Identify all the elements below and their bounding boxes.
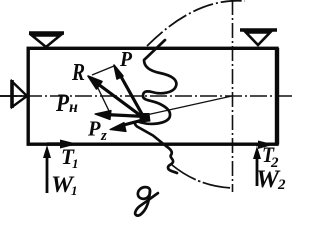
svg-text:1: 1 <box>71 183 78 198</box>
vertical center line (cutter axis) <box>232 0 234 192</box>
top-right support bar <box>240 28 277 32</box>
svg-text:R: R <box>71 60 85 86</box>
left support triangle <box>12 82 27 108</box>
force P shaft <box>119 73 145 120</box>
force P arrowhead <box>114 65 123 79</box>
top-right support triangle <box>246 33 270 46</box>
top-left support bar <box>29 31 64 35</box>
friction force T2 arrow on bottom edge <box>256 143 262 146</box>
parallelogram thin line R-tip to Pn-tip <box>95 82 110 113</box>
force Pn arrowhead <box>95 111 111 120</box>
force R shaft <box>98 84 145 119</box>
force R arrowhead <box>88 76 102 89</box>
svg-text:2: 2 <box>277 177 286 193</box>
horizontal center line (workpiece axis) <box>0 95 293 97</box>
svg-text:z: z <box>100 128 107 144</box>
workpiece rectangle <box>28 48 277 144</box>
clamp force W2 arrow <box>256 151 259 186</box>
cutter circle top arc <box>147 1 245 46</box>
force Pz arrowhead <box>110 123 126 132</box>
svg-text:1: 1 <box>72 156 79 171</box>
left support center line <box>0 95 28 97</box>
svg-text:P: P <box>87 117 101 141</box>
cutter circle bottom arc <box>172 165 233 188</box>
clamp force W1 arrow <box>46 150 49 193</box>
friction force T1 arrow on bottom edge <box>47 142 62 145</box>
parallelogram thin line R-tip to P-tip <box>92 66 114 75</box>
right edge emphasis <box>275 48 279 145</box>
force Pz shaft <box>120 120 145 127</box>
svg-text:н: н <box>69 99 78 116</box>
left support back bar <box>10 80 14 108</box>
figure label g <box>135 187 158 215</box>
thin radius line O to cutter center <box>144 96 232 116</box>
node O (force application point) <box>139 113 151 123</box>
break line squiggle (cut surface) <box>135 40 177 173</box>
svg-text:P: P <box>119 47 132 71</box>
svg-text:P: P <box>55 90 69 117</box>
force Pn shaft (horizontal) <box>104 115 146 117</box>
top-left support triangle <box>32 36 60 48</box>
